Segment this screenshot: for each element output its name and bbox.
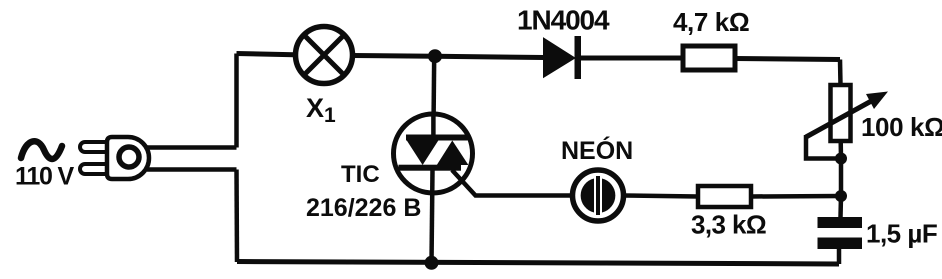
svg-text:X1: X1 [306, 93, 336, 127]
svg-text:110 V: 110 V [15, 163, 74, 191]
plug P1 prong bottom [80, 164, 112, 174]
plug P1 body [107, 137, 149, 179]
svg-text:216/226 B: 216/226 B [306, 194, 421, 222]
triac Q1 left triangle [407, 141, 439, 166]
svg-text:NEÓN: NEÓN [561, 135, 633, 165]
node D junction dot [425, 256, 439, 270]
capacitor C1 bottom plate [818, 238, 863, 250]
node A junction dot [428, 49, 442, 63]
triac Q1 bottom bar [399, 165, 462, 171]
wire diode to resistor R1 [581, 56, 683, 61]
triac gate wire [452, 170, 572, 196]
wire left vertical down [234, 170, 239, 263]
wire node A down to triac [431, 56, 436, 136]
potentiometer P1 100k body [831, 85, 851, 141]
node B junction dot [835, 153, 847, 165]
diode D1 [544, 39, 574, 77]
wire node C to capacitor [838, 196, 843, 217]
wire lamp to node A [353, 53, 436, 59]
wire left vertical up [234, 54, 239, 148]
svg-text:TIC: TIC [341, 161, 380, 188]
potentiometer arrow [806, 99, 875, 137]
wire node B to node C [839, 159, 844, 197]
wire top rail left [237, 54, 295, 55]
wire plug bottom to left node [147, 167, 237, 172]
wire R1 to right corner [735, 59, 840, 60]
lamp X1 [296, 27, 353, 84]
wire neon to resistor R2 [624, 196, 699, 197]
wire plug top to left node [147, 145, 237, 150]
svg-text:1N4004: 1N4004 [517, 5, 610, 36]
plug P1 hole [119, 147, 139, 167]
wire right corner down to potentiometer [838, 60, 843, 86]
svg-text:4,7 kΩ: 4,7 kΩ [673, 7, 749, 37]
wire bottom rail [237, 262, 839, 265]
node C junction dot [835, 190, 847, 202]
triac Q1 top bar [406, 135, 468, 141]
capacitor C1 top plate [818, 217, 863, 228]
svg-text:100 kΩ: 100 kΩ [861, 112, 942, 142]
triac Q1 right triangle [437, 141, 469, 166]
ac sine symbol [21, 141, 62, 159]
triac Q1 main terminal lead down [432, 170, 433, 263]
svg-text:3,3 kΩ: 3,3 kΩ [691, 210, 766, 240]
wire wiper bend to node B [806, 135, 841, 159]
wire R2 to node C [751, 194, 841, 199]
svg-text:1,5 µF: 1,5 µF [866, 219, 937, 249]
neon lamp NE1 [573, 170, 624, 221]
triac Q1 circle [394, 114, 473, 193]
wire pot bottom to node B [838, 141, 843, 159]
resistor R2 3,3k body [698, 186, 751, 207]
triac Q1 vertical lead inside top [431, 114, 436, 137]
wire node A to diode [435, 56, 544, 57]
plug P1 prong top [80, 142, 112, 152]
resistor R1 4,7k body [683, 46, 735, 70]
wire capacitor to bottom rail [837, 249, 842, 264]
